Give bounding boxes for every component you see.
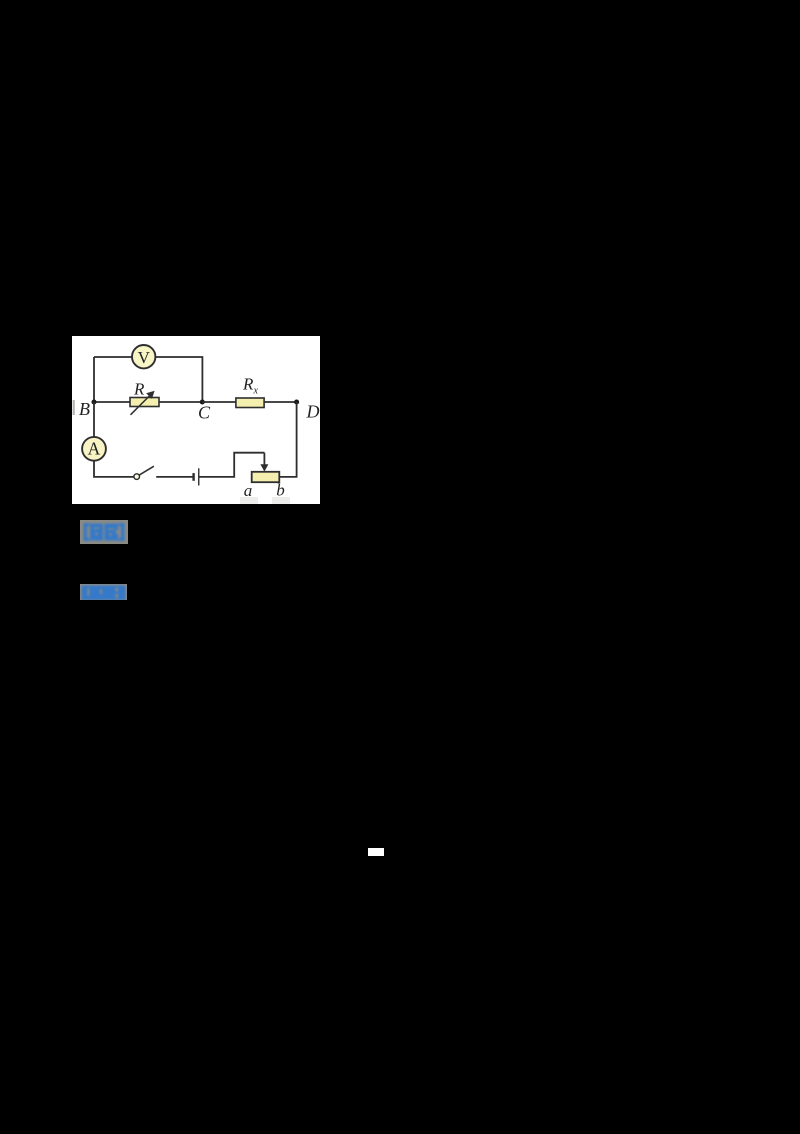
node C dot xyxy=(200,399,205,404)
analysis tag block xyxy=(80,584,127,600)
wire switch to battery xyxy=(156,476,192,478)
wire: top loop left vertical (B up) xyxy=(93,357,95,402)
svg-text:B: B xyxy=(79,399,90,419)
resistor Rx body xyxy=(236,398,264,408)
svg-text:R: R xyxy=(133,380,145,399)
wire ammeter down to bottom rail xyxy=(94,461,134,477)
voltmeter V1 circle xyxy=(132,345,155,368)
arrow through R xyxy=(131,395,151,415)
node D dot xyxy=(294,399,299,404)
faint smudge under a xyxy=(240,497,258,504)
wiper arrow shaft xyxy=(263,453,265,466)
wire Rx to D xyxy=(264,401,297,403)
svg-text:C: C xyxy=(198,403,211,423)
wire: voltmeter to top-right corner and down to node C xyxy=(156,357,203,402)
svg-text:x: x xyxy=(253,386,259,397)
main wire B to R xyxy=(94,401,130,403)
battery short plate xyxy=(192,473,194,481)
faint smudge under b xyxy=(272,497,290,504)
wire rheostat to right riser and up to D xyxy=(280,402,297,477)
ammeter A1 circle xyxy=(82,437,106,461)
wire B down to ammeter xyxy=(93,402,95,437)
switch S pivot circle xyxy=(134,474,140,480)
svg-text:A: A xyxy=(88,439,101,459)
answer tag block xyxy=(80,520,128,544)
node B dot xyxy=(91,399,96,404)
svg-text:b: b xyxy=(276,481,285,500)
svg-text:V: V xyxy=(138,348,151,367)
svg-text:D: D xyxy=(306,402,320,422)
variable resistor R body xyxy=(130,398,159,407)
wire R to C xyxy=(159,401,202,403)
wiper arrowhead xyxy=(260,464,268,471)
cropped character fragment at left edge xyxy=(73,400,75,415)
svg-text:R: R xyxy=(242,375,254,394)
white dash marker xyxy=(368,848,384,856)
wire C to Rx xyxy=(202,401,236,403)
rheostat body a-b xyxy=(252,472,280,482)
battery long plate xyxy=(198,468,200,485)
circuit schematic panel xyxy=(72,336,320,504)
wire battery to riser xyxy=(199,453,265,477)
switch lever xyxy=(139,466,154,475)
wire: top horizontal to voltmeter xyxy=(94,356,133,358)
